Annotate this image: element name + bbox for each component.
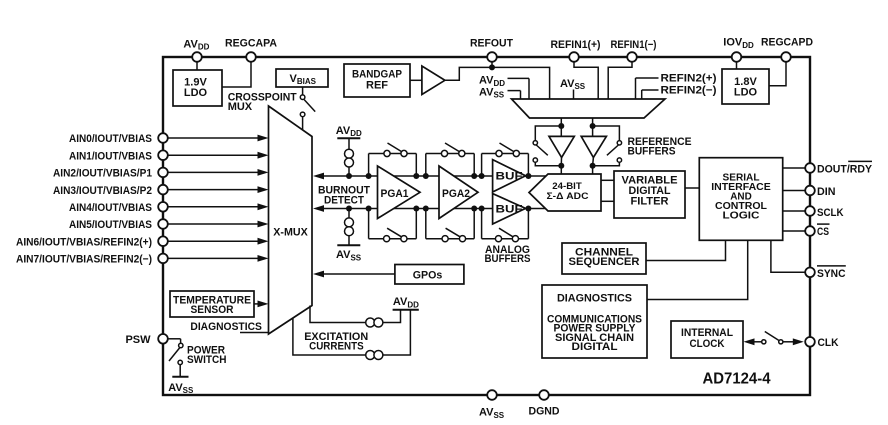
wire filter to serial interface [685, 187, 699, 189]
buffer BUF bottom [493, 194, 526, 224]
svg-text:DETECT: DETECT [324, 194, 364, 206]
buffer reference buffer 1 [560, 158, 562, 166]
wire serial interface to DOUT/RDY [783, 167, 806, 169]
svg-text:AD7124-4: AD7124-4 [703, 371, 771, 388]
switch PGA2 bottom bypass [425, 209, 427, 239]
wire bandgap amp to REFOUT node [445, 67, 550, 99]
wire AVDD pin to 1.9V LDO [196, 62, 198, 70]
box CHANNEL SEQUENCER [562, 243, 646, 274]
svg-text:SCLK: SCLK [817, 207, 844, 219]
wire REGCAPA to 1.9V LDO [222, 62, 251, 87]
svg-text:BUFFERS: BUFFERS [628, 146, 676, 158]
svg-text:Σ-Δ ADC: Σ-Δ ADC [547, 191, 589, 202]
wire serial interface to SCLK [783, 210, 806, 212]
node REFOUT junction [489, 64, 495, 70]
svg-text:PGA1: PGA1 [381, 188, 409, 200]
box SERIAL INTERFACE AND CONTROL LOGIC [699, 158, 782, 241]
svg-text:DIGITAL: DIGITAL [572, 341, 618, 353]
pin REFIN1(-) [627, 52, 637, 62]
pin AIN5 [158, 219, 168, 229]
svg-text:CURRENTS: CURRENTS [309, 340, 364, 352]
switch internal clock to CLK pin [744, 338, 755, 345]
wire temperature sensor to X-MUX [254, 303, 259, 305]
switch buffer top bypass [481, 154, 483, 177]
node reference buffer junctions [558, 123, 564, 129]
mux X-MUX [269, 106, 313, 334]
pin IOVDD [732, 52, 742, 62]
svg-text:REF: REF [366, 79, 388, 91]
svg-text:REFOUT: REFOUT [470, 37, 513, 49]
svg-text:AVDD: AVDD [336, 125, 362, 138]
svg-text:BUFFERS: BUFFERS [485, 253, 531, 265]
box TEMPERATURE SENSOR [170, 291, 254, 317]
svg-text:AIN1/IOUT/VBIAS: AIN1/IOUT/VBIAS [69, 150, 152, 162]
svg-text:BUF: BUF [496, 171, 523, 183]
svg-text:AIN2/IOUT/VBIAS/P1: AIN2/IOUT/VBIAS/P1 [53, 168, 152, 180]
svg-text:REFIN1(+): REFIN1(+) [551, 39, 601, 51]
pin AIN2 [158, 168, 168, 178]
reference mux [512, 99, 666, 118]
wire REGCAPD to 1.8V LDO [769, 62, 786, 86]
power AVDD excitation rail [393, 309, 419, 311]
node signal row junctions [346, 173, 352, 179]
svg-text:REGCAPA: REGCAPA [225, 37, 277, 49]
switch POWER SWITCH [168, 338, 181, 340]
wire reference mux outputs [560, 118, 562, 136]
svg-text:AVSS: AVSS [168, 382, 194, 395]
box BANDGAP REF [344, 64, 410, 97]
wire serial interface to CS [783, 230, 806, 232]
pin AIN4 [158, 202, 168, 212]
switch reference buffer 1 bypass [535, 126, 561, 141]
pin AIN1 [158, 150, 168, 160]
chip boundary [163, 57, 810, 395]
box 1.9V LDO [173, 70, 222, 106]
wire REFIN1(+) to reference mux [574, 62, 598, 99]
buffer BUF top [493, 160, 526, 192]
wire GPOs to X-MUX [324, 273, 395, 275]
box DIAGNOSTICS COMMUNICATIONS POWER SUPPLY SIGNAL CHAIN DIGITAL [542, 285, 647, 358]
svg-text:IOVDD: IOVDD [723, 37, 754, 50]
svg-text:REFIN2(+): REFIN2(+) [661, 73, 717, 85]
wire analog signal row bottom [324, 208, 548, 210]
switch reference buffer 2 bypass [593, 126, 620, 141]
svg-text:SYNC: SYNC [817, 268, 846, 280]
box GPOs [395, 265, 464, 285]
wire REFOUT pin stub [491, 62, 493, 68]
current source excitation current 1 [310, 306, 401, 323]
svg-text:BUF: BUF [496, 203, 523, 215]
svg-text:LOGIC: LOGIC [723, 211, 760, 222]
svg-text:AVDD: AVDD [393, 296, 419, 309]
switch VBIAS to X-MUX [302, 87, 304, 95]
power AVSS burnout current source [348, 209, 350, 218]
pin DIN [805, 186, 815, 196]
svg-text:REFIN2(−): REFIN2(−) [661, 85, 717, 97]
pin REFOUT [487, 52, 497, 62]
wire AIN6 to X-MUX [168, 240, 259, 242]
svg-text:AIN4/IOUT/VBIAS: AIN4/IOUT/VBIAS [69, 202, 152, 214]
switch buffer bottom bypass [481, 209, 483, 239]
box 1.8V LDO [722, 69, 769, 104]
wire AVDD to reference mux [508, 77, 530, 79]
wire serial interface to DIN [783, 190, 806, 192]
wire AIN7 to X-MUX [168, 257, 259, 259]
svg-text:DGND: DGND [529, 406, 560, 418]
svg-text:AVSS: AVSS [479, 86, 505, 99]
box VBIAS [276, 69, 328, 87]
svg-text:REGCAPD: REGCAPD [761, 36, 813, 48]
block 24-BIT sigma-delta ADC [529, 174, 601, 211]
wire AIN5 to X-MUX [168, 223, 259, 225]
svg-text:X-MUX: X-MUX [273, 226, 308, 238]
svg-text:AVSS: AVSS [336, 249, 362, 262]
wire analog signal row top [324, 175, 548, 177]
wire bandgap to amp [410, 79, 422, 81]
current source excitation current 2 [293, 310, 411, 355]
wire diagnostics box to serial interface [647, 240, 748, 299]
svg-text:AIN0/IOUT/VBIAS: AIN0/IOUT/VBIAS [69, 133, 152, 145]
wire channel sequencer to serial interface [646, 240, 726, 260]
pin AIN0 [158, 133, 168, 143]
wire diagnostics to X-MUX [240, 332, 269, 334]
svg-text:REFIN1(−): REFIN1(−) [611, 39, 657, 51]
svg-text:FILTER: FILTER [631, 195, 669, 207]
svg-text:AIN7/IOUT/VBIAS/REFIN2(−): AIN7/IOUT/VBIAS/REFIN2(−) [16, 254, 152, 266]
wire IOVDD pin to 1.8V LDO [736, 62, 738, 69]
pin REGCAPA [246, 52, 256, 62]
pin CLK [805, 337, 815, 347]
wire REFIN2(-) to reference mux [642, 89, 659, 91]
pin AVDD [192, 52, 202, 62]
svg-text:SWITCH: SWITCH [187, 354, 227, 366]
switch PGA2 top bypass [425, 154, 427, 177]
wire REFIN1(-) to reference mux [608, 62, 632, 99]
pin PSW [158, 334, 168, 344]
svg-text:SEQUENCER: SEQUENCER [569, 256, 640, 268]
wire REFIN2(+) to reference mux [636, 77, 659, 79]
wire AIN4 to X-MUX [168, 206, 259, 208]
wire AIN0 to X-MUX [168, 137, 259, 139]
pin SCLK [805, 206, 815, 216]
svg-text:AVDD: AVDD [183, 39, 209, 52]
svg-text:AIN6/IOUT/VBIAS/REFIN2(+): AIN6/IOUT/VBIAS/REFIN2(+) [16, 236, 152, 248]
svg-text:CS: CS [817, 226, 829, 238]
box INTERNAL CLOCK [671, 321, 743, 358]
wire AVSS to reference mux [508, 90, 521, 92]
buffer reference buffer 2 [592, 158, 595, 166]
svg-text:DIAGNOSTICS: DIAGNOSTICS [190, 321, 262, 333]
box VARIABLE DIGITAL FILTER [614, 171, 685, 218]
op-amp bandgap buffer [422, 66, 445, 95]
wire AVSS center stub to reference mux [573, 90, 575, 100]
pin AIN6 [158, 236, 168, 246]
ground AVSS power switch [179, 365, 181, 377]
svg-text:GPOs: GPOs [413, 269, 443, 281]
switch PGA1 bottom bypass [368, 209, 370, 239]
svg-text:SENSOR: SENSOR [191, 304, 234, 316]
svg-text:PGA2: PGA2 [442, 188, 470, 200]
svg-text:DIAGNOSTICS: DIAGNOSTICS [557, 292, 632, 304]
pin CS [805, 226, 815, 236]
svg-text:CLOCK: CLOCK [690, 338, 725, 350]
svg-text:DIN: DIN [817, 186, 836, 198]
pin REGCAPD [781, 52, 791, 62]
pin DGND [539, 390, 549, 400]
switch PGA1 top bypass [368, 154, 370, 177]
svg-text:MUX: MUX [228, 101, 253, 113]
svg-text:AVSS: AVSS [479, 407, 505, 420]
wire AIN3 to X-MUX [168, 189, 259, 191]
pin DOUT/RDY [805, 163, 815, 173]
svg-text:AVSS: AVSS [560, 78, 586, 91]
power AVDD burnout current source [337, 137, 360, 139]
svg-text:DOUT/RDY: DOUT/RDY [817, 164, 873, 176]
wire AIN2 to X-MUX [168, 171, 259, 173]
svg-text:CLK: CLK [818, 337, 839, 349]
wire reference buffers to ADC [560, 166, 562, 175]
amplifier PGA2 [439, 166, 478, 219]
wire ADC to digital filter [601, 179, 614, 181]
pin AVSS bottom [487, 390, 497, 400]
wire AIN1 to X-MUX [168, 154, 259, 156]
svg-text:PSW: PSW [125, 334, 151, 346]
svg-text:AIN5/IOUT/VBIAS: AIN5/IOUT/VBIAS [69, 219, 152, 231]
pin REFIN1(+) [569, 52, 579, 62]
pin AIN3 [158, 185, 168, 195]
svg-text:LDO: LDO [184, 87, 208, 99]
pin SYNC [805, 268, 815, 278]
amplifier PGA1 [378, 166, 421, 219]
svg-text:LDO: LDO [734, 86, 758, 98]
svg-text:AIN3/IOUT/VBIAS/P2: AIN3/IOUT/VBIAS/P2 [53, 185, 152, 197]
pin AIN7 [158, 254, 168, 264]
wire serial interface to SYNC [771, 240, 805, 272]
